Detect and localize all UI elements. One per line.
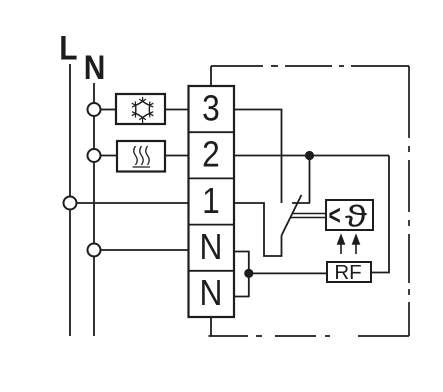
device frame top dash-dot xyxy=(211,65,409,67)
terminal block divider N/N xyxy=(189,270,235,272)
wire terminal N to junction xyxy=(234,252,249,274)
wire L circle to terminal 1 xyxy=(77,202,189,204)
junction dot on terminal 2 wire xyxy=(305,151,314,160)
svg-text:2: 2 xyxy=(202,135,220,176)
wire L supply line xyxy=(69,64,71,336)
svg-text:N: N xyxy=(84,48,106,86)
wire N circle to heating box xyxy=(101,155,118,157)
heating element icon xyxy=(133,146,151,167)
svg-text:3: 3 xyxy=(202,88,220,129)
heating device box xyxy=(117,141,165,172)
wire cooling box to terminal 3 xyxy=(165,109,189,111)
RF signal arrow right xyxy=(353,236,359,255)
terminal circle on N line, terminal-N row xyxy=(88,244,101,257)
cooling device box xyxy=(116,94,165,124)
terminal circle on N line, cooling row xyxy=(88,103,101,116)
svg-text:RF: RF xyxy=(334,261,361,284)
cooling snowflake icon xyxy=(132,97,154,124)
svg-text:N: N xyxy=(200,273,223,314)
wire RF box to L riser xyxy=(371,156,389,273)
wire stub terminal block top to frame xyxy=(210,66,212,86)
mechanical linkage switch to thermostat xyxy=(291,214,327,218)
svg-text:N: N xyxy=(200,227,223,268)
switch blade xyxy=(282,195,302,236)
wire junction to RF box xyxy=(249,272,327,274)
wire stub terminal block bottom to frame xyxy=(210,317,212,336)
svg-text:L: L xyxy=(59,29,77,67)
wire N circle to terminal N xyxy=(101,249,189,251)
terminal circle on N line, heating row xyxy=(88,149,101,162)
svg-text:1: 1 xyxy=(202,181,220,222)
wire N circle to cooling box xyxy=(101,109,117,111)
terminal circle on L line, terminal-1 row xyxy=(64,197,77,210)
wire N supply line xyxy=(93,83,95,336)
svg-text:<: < xyxy=(329,201,341,232)
device frame bottom dash-dot xyxy=(209,335,410,337)
wire terminal 3 to switch contact xyxy=(234,110,282,204)
device frame right dash-dot xyxy=(408,66,410,336)
terminal block divider 1/N xyxy=(189,224,235,226)
terminal block divider 3/2 xyxy=(189,131,235,133)
terminal block outline xyxy=(189,86,235,317)
wire terminal 1 to switch blade xyxy=(234,203,282,256)
RF signal arrow left xyxy=(338,236,344,255)
svg-text:ϑ: ϑ xyxy=(345,198,367,233)
terminal block divider 2/1 xyxy=(189,177,235,179)
thermostat box U1 xyxy=(326,200,373,230)
wire junction down to switch fixed contact xyxy=(309,156,311,204)
junction dot on N wire xyxy=(244,269,253,278)
RF receiver box U2 xyxy=(327,262,371,282)
switch fixed contact bar xyxy=(292,202,310,204)
wire terminal 2 to right riser xyxy=(234,155,389,157)
wire terminal N2 to junction xyxy=(234,273,249,296)
wire heating box to terminal 2 xyxy=(165,155,189,157)
